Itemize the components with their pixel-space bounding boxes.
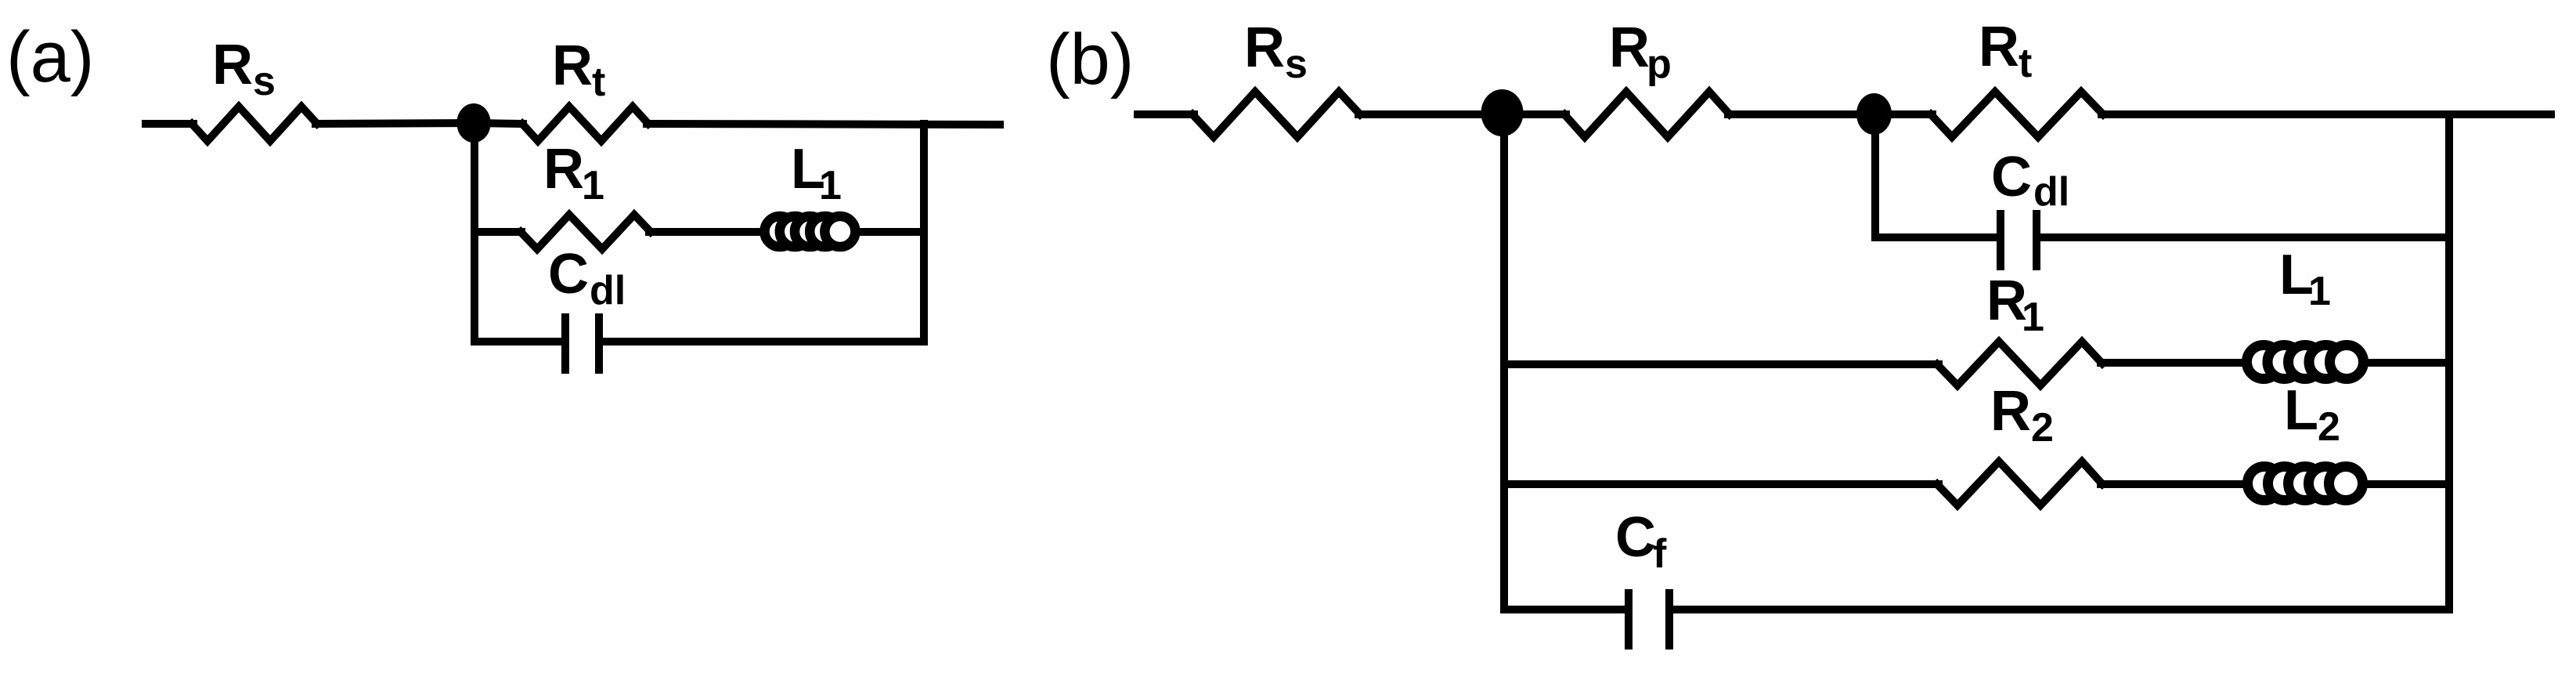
svg-text:1: 1 — [2308, 269, 2331, 314]
resistor R1 (b) — [1937, 342, 2102, 385]
label R1 (a) — [543, 138, 604, 208]
label Cf (b) — [1615, 506, 1667, 577]
svg-text:dl: dl — [2033, 169, 2069, 215]
wire: left vertical from node A (a) — [471, 123, 478, 342]
wire: right vertical rail (a) — [920, 124, 928, 342]
label Rp (b) — [1609, 16, 1672, 87]
label R1 (b) — [1986, 270, 2044, 340]
svg-text:1: 1 — [819, 163, 842, 208]
label Cdl (b) — [1991, 146, 2069, 215]
wire: bottom branch right segment (a) — [603, 338, 924, 346]
svg-text:R: R — [1979, 16, 2019, 78]
wire: Cdl branch left segment (b) — [1875, 233, 1997, 241]
label Rt (a) — [552, 34, 605, 105]
wire: bottom branch left segment (a) — [474, 338, 561, 346]
inductor L1 (a) — [765, 216, 856, 247]
wire: node B2 to Rt — [1874, 110, 1932, 118]
resistor Rs (b) — [1192, 92, 1360, 137]
label Rs (a) — [212, 34, 276, 104]
wire: (b) input lead — [1138, 110, 1194, 118]
wire: Rp to node B2 — [1728, 110, 1873, 118]
label L2 (b) — [2284, 379, 2340, 450]
label L1 (a) — [791, 138, 842, 208]
svg-text:R: R — [1990, 380, 2031, 443]
resistor R2 (b) — [1937, 461, 2102, 505]
svg-text:s: s — [253, 59, 276, 104]
wire: R2 to L2 (b) — [2101, 480, 2449, 488]
svg-text:C: C — [1991, 146, 2032, 208]
wire: node B1 to Rp — [1502, 110, 1566, 118]
svg-text:(b): (b) — [1046, 20, 1134, 100]
svg-text:R: R — [1609, 16, 1650, 79]
wire: R2 branch left segment (b) — [1504, 480, 1939, 488]
wire: vertical from node B2 (b) — [1871, 114, 1879, 237]
resistor Rt (a) — [522, 107, 648, 141]
svg-text:R: R — [543, 138, 584, 201]
svg-text:(a): (a) — [6, 17, 94, 97]
node B1 junction dot — [1481, 89, 1524, 136]
svg-text:f: f — [1653, 531, 1667, 577]
svg-text:R: R — [1244, 16, 1285, 79]
wire: R1 to L1 (a) — [649, 228, 924, 236]
node B2 junction dot — [1856, 93, 1892, 135]
svg-text:C: C — [1615, 506, 1656, 569]
capacitor Cdl (b) — [1997, 210, 2004, 270]
wire: R1 branch left segment (b) — [1504, 360, 1939, 368]
label Cdl (a) — [548, 243, 626, 313]
wire: Cf branch right segment (b) — [1673, 606, 2449, 613]
wire: Rt to top right rail (b) — [2102, 110, 2551, 118]
svg-text:R: R — [212, 34, 253, 96]
capacitor Cdl (a) — [561, 313, 569, 374]
label R2 (b) — [1990, 380, 2054, 450]
svg-text:R: R — [552, 34, 593, 97]
inductor L1 (b) — [2247, 346, 2364, 379]
wire: (a) input lead — [146, 120, 193, 128]
svg-text:2: 2 — [2318, 404, 2340, 450]
label Rs (b) — [1244, 16, 1308, 87]
svg-text:dl: dl — [590, 268, 626, 313]
resistor R1 (a) — [521, 215, 651, 249]
node A junction dot (a) — [456, 103, 490, 143]
label L1 (b) — [2279, 244, 2331, 314]
capacitor Cf (b) — [1625, 589, 1633, 649]
panel label (a) — [6, 17, 94, 97]
svg-text:C: C — [548, 243, 589, 306]
resistor Rt (b) — [1931, 92, 2103, 137]
svg-text:2: 2 — [2031, 405, 2054, 450]
resistor Rs (a) — [192, 107, 317, 141]
label Rt (b) — [1979, 16, 2032, 86]
wire: R1 to L1 (b) — [2101, 359, 2449, 367]
svg-text:1: 1 — [582, 163, 604, 208]
inductor L2 (b) — [2248, 467, 2363, 501]
panel label (b) — [1046, 20, 1134, 100]
wire: Cf branch left segment (b) — [1504, 606, 1625, 613]
svg-text:t: t — [2019, 41, 2032, 86]
wire: Rs to node A — [316, 123, 474, 124]
wire: node A to Rt — [474, 123, 523, 124]
svg-text:s: s — [1285, 42, 1308, 87]
svg-text:L: L — [2284, 379, 2318, 442]
wire: Rs to node B1 — [1358, 110, 1502, 118]
wire: Cdl branch right segment (b) — [2040, 233, 2449, 241]
wire: middle branch left segment (a) — [474, 228, 521, 236]
wire: left vertical from node B1 (b) — [1500, 114, 1508, 610]
resistor Rp (b) — [1564, 92, 1730, 137]
svg-text:t: t — [592, 60, 605, 105]
svg-text:p: p — [1647, 42, 1672, 87]
wire: right vertical rail (b) — [2445, 114, 2453, 610]
wire: Rt to right rail (a) — [647, 124, 1000, 125]
svg-text:1: 1 — [2022, 295, 2044, 340]
